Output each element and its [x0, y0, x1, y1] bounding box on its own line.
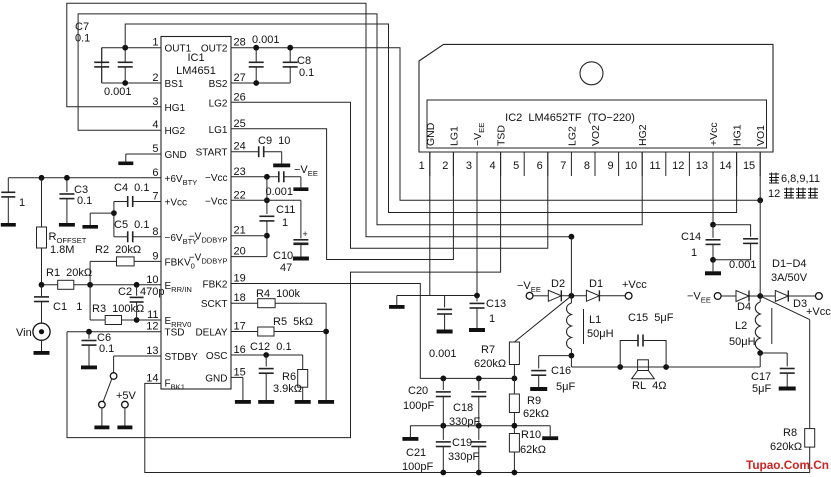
svg-text:8: 8: [584, 160, 590, 172]
svg-text:OUT1: OUT1: [165, 44, 192, 55]
svg-text:0.1: 0.1: [77, 195, 92, 207]
svg-text:5μF: 5μF: [752, 383, 771, 395]
svg-text:28: 28: [234, 37, 246, 49]
svg-text:330pF: 330pF: [448, 451, 479, 463]
svg-text:HG1: HG1: [732, 124, 744, 146]
svg-text:12: 12: [768, 188, 780, 200]
svg-text:Tupao.Com.Cn: Tupao.Com.Cn: [746, 458, 829, 472]
svg-text:R4 100k: R4 100k: [256, 288, 301, 300]
svg-text:C7: C7: [75, 21, 89, 33]
svg-text:OUT2: OUT2: [201, 44, 228, 55]
svg-text:C16: C16: [551, 365, 571, 377]
svg-text:4: 4: [489, 160, 495, 172]
svg-text:23: 23: [234, 166, 246, 178]
svg-text:17: 17: [234, 321, 246, 333]
svg-text:100pF: 100pF: [402, 461, 433, 473]
svg-text:9: 9: [152, 250, 158, 262]
svg-text:10: 10: [146, 274, 158, 286]
svg-text:62kΩ: 62kΩ: [523, 408, 549, 420]
svg-text:5μF: 5μF: [556, 381, 575, 393]
svg-text:LG1: LG1: [209, 125, 228, 136]
svg-text:D4: D4: [737, 301, 751, 313]
svg-text:−Vcc: −Vcc: [205, 196, 228, 207]
svg-text:1: 1: [419, 160, 425, 172]
svg-text:LG1: LG1: [448, 126, 460, 146]
svg-text:BS1: BS1: [165, 79, 184, 90]
svg-text:0.1: 0.1: [75, 33, 90, 45]
svg-text:12: 12: [146, 321, 158, 333]
svg-text:25: 25: [234, 118, 246, 130]
svg-text:14: 14: [719, 160, 731, 172]
svg-text:7: 7: [560, 160, 566, 172]
svg-text:24: 24: [234, 141, 246, 153]
svg-text:C12 0.1: C12 0.1: [250, 341, 292, 353]
svg-text:GND: GND: [425, 122, 437, 146]
svg-text:50μH: 50μH: [729, 336, 756, 348]
svg-text:R10: R10: [521, 429, 541, 441]
svg-text:15: 15: [743, 160, 755, 172]
svg-text:15: 15: [234, 366, 246, 378]
svg-text:0.1: 0.1: [99, 343, 114, 355]
svg-text:D3: D3: [793, 298, 807, 310]
svg-text:0.001: 0.001: [729, 259, 757, 271]
svg-text:C19: C19: [452, 437, 472, 449]
svg-text:+Vcc: +Vcc: [806, 306, 831, 318]
svg-text:LG2: LG2: [566, 126, 578, 146]
svg-text:C11: C11: [276, 204, 295, 216]
svg-text:1: 1: [691, 247, 697, 259]
svg-text:5: 5: [513, 160, 519, 172]
svg-text:C4 0.1: C4 0.1: [114, 182, 149, 194]
svg-text:6,8,9,11: 6,8,9,11: [781, 173, 820, 185]
svg-text:+5V: +5V: [116, 390, 137, 402]
svg-text:L1: L1: [589, 314, 601, 326]
svg-text:C2: C2: [118, 286, 132, 298]
svg-text:3.9kΩ: 3.9kΩ: [273, 383, 302, 395]
svg-text:VO2: VO2: [590, 125, 602, 146]
svg-text:OSC: OSC: [206, 351, 228, 362]
svg-text:3: 3: [466, 160, 472, 172]
svg-text:1: 1: [489, 313, 495, 325]
svg-text:C13: C13: [486, 298, 506, 310]
svg-text:62kΩ: 62kΩ: [520, 444, 546, 456]
svg-text:C8: C8: [297, 55, 311, 67]
svg-text:LG2: LG2: [209, 98, 228, 109]
svg-text:+Vcc: +Vcc: [165, 198, 188, 209]
svg-text:1: 1: [152, 37, 158, 49]
svg-text:TSD: TSD: [496, 125, 508, 146]
svg-text:4: 4: [152, 119, 158, 131]
svg-text:L2: L2: [735, 320, 747, 332]
svg-text:2: 2: [152, 72, 158, 84]
svg-text:C17: C17: [751, 371, 771, 383]
svg-text:R9: R9: [527, 395, 541, 407]
svg-text:FBK2: FBK2: [202, 280, 227, 291]
svg-text:1: 1: [282, 217, 288, 229]
svg-text:C1 1: C1 1: [53, 301, 82, 313]
svg-text:18: 18: [234, 292, 246, 304]
svg-text:C10: C10: [273, 250, 293, 262]
svg-text:9: 9: [607, 160, 613, 172]
svg-text:R5 5kΩ: R5 5kΩ: [273, 316, 313, 328]
svg-text:R7: R7: [481, 344, 495, 356]
svg-text:0.001: 0.001: [104, 86, 132, 98]
svg-text:11: 11: [147, 309, 158, 321]
svg-text:C15 5μF: C15 5μF: [628, 312, 674, 324]
svg-text:6: 6: [537, 160, 543, 172]
svg-text:0.1: 0.1: [299, 67, 314, 79]
svg-text:470p: 470p: [140, 286, 164, 298]
svg-text:26: 26: [234, 91, 246, 103]
svg-text:13: 13: [146, 345, 158, 357]
svg-text:620kΩ: 620kΩ: [474, 358, 506, 370]
svg-text:D1: D1: [589, 278, 603, 290]
svg-text:C20: C20: [408, 385, 428, 397]
svg-text:VO1: VO1: [755, 125, 767, 146]
svg-text:13: 13: [696, 160, 708, 172]
svg-text:100pF: 100pF: [403, 400, 434, 412]
svg-text:STDBY: STDBY: [165, 352, 199, 363]
svg-text:14: 14: [146, 372, 158, 384]
svg-text:12: 12: [672, 160, 684, 172]
svg-text:330pF: 330pF: [449, 416, 480, 428]
svg-text:2: 2: [442, 160, 448, 172]
svg-text:R2 20kΩ: R2 20kΩ: [95, 244, 141, 256]
svg-text:HG2: HG2: [165, 126, 186, 137]
svg-text:SCKT: SCKT: [201, 299, 228, 310]
svg-text:Vin: Vin: [16, 327, 32, 339]
svg-text:C21: C21: [406, 447, 426, 459]
svg-text:16: 16: [234, 344, 246, 356]
svg-text:0.001: 0.001: [252, 34, 280, 46]
svg-text:TSD: TSD: [165, 328, 185, 339]
svg-text:R6: R6: [282, 371, 296, 383]
svg-text:5: 5: [152, 143, 158, 155]
svg-text:C9 10: C9 10: [258, 135, 290, 147]
svg-text:19: 19: [234, 273, 246, 285]
svg-text:0.001: 0.001: [266, 186, 294, 198]
svg-text:R1 20kΩ: R1 20kΩ: [46, 267, 92, 279]
svg-text:11: 11: [649, 160, 660, 172]
svg-text:D2: D2: [551, 278, 565, 290]
svg-text:+Vcc: +Vcc: [708, 122, 720, 146]
svg-text:C18: C18: [453, 402, 473, 414]
svg-text:C14: C14: [681, 231, 701, 243]
svg-text:22: 22: [234, 189, 246, 201]
svg-text:DELAY: DELAY: [195, 328, 227, 339]
svg-text:6: 6: [152, 167, 158, 179]
svg-text:−Vcc: −Vcc: [205, 173, 228, 184]
svg-text:R8: R8: [783, 427, 797, 439]
svg-text:C5 0.1: C5 0.1: [114, 219, 149, 231]
svg-text:0.001: 0.001: [429, 348, 457, 360]
svg-text:620kΩ: 620kΩ: [770, 441, 802, 453]
svg-text:1: 1: [19, 197, 25, 209]
svg-text:1.8M: 1.8M: [50, 244, 74, 256]
svg-text:3A/50V: 3A/50V: [771, 272, 808, 284]
svg-text:RL 4Ω: RL 4Ω: [632, 380, 667, 392]
svg-text:3: 3: [152, 96, 158, 108]
svg-text:HG2: HG2: [637, 124, 649, 146]
svg-text:20: 20: [234, 246, 246, 258]
svg-text:8: 8: [152, 226, 158, 238]
svg-text:D1−D4: D1−D4: [772, 258, 807, 270]
svg-text:IC2 LM4652TF (TO−220): IC2 LM4652TF (TO−220): [505, 112, 635, 124]
svg-text:21: 21: [234, 225, 246, 237]
svg-text:+Vcc: +Vcc: [622, 279, 647, 291]
svg-text:47: 47: [280, 262, 292, 274]
svg-text:BS2: BS2: [209, 79, 228, 90]
svg-text:START: START: [196, 148, 228, 159]
svg-text:GND: GND: [165, 150, 187, 161]
svg-text:LM4651: LM4651: [176, 65, 216, 77]
svg-text:GND: GND: [205, 373, 227, 384]
svg-text:7: 7: [152, 191, 158, 203]
svg-text:10: 10: [625, 160, 637, 172]
svg-text:50μH: 50μH: [587, 328, 614, 340]
svg-text:27: 27: [234, 72, 246, 84]
svg-text:HG1: HG1: [165, 103, 186, 114]
svg-text:+: +: [303, 229, 308, 239]
